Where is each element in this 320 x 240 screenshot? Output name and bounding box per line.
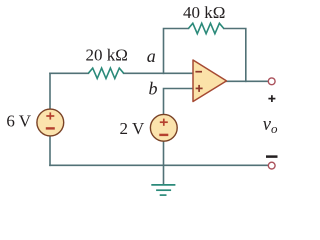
svg-text:40 kΩ: 40 kΩ	[183, 3, 225, 22]
svg-text:2 V: 2 V	[120, 119, 145, 138]
svg-text:a: a	[147, 46, 156, 66]
svg-text:20 kΩ: 20 kΩ	[86, 45, 128, 64]
svg-text:b: b	[149, 78, 158, 98]
svg-text:o: o	[271, 121, 278, 136]
svg-text:6 V: 6 V	[6, 112, 31, 131]
